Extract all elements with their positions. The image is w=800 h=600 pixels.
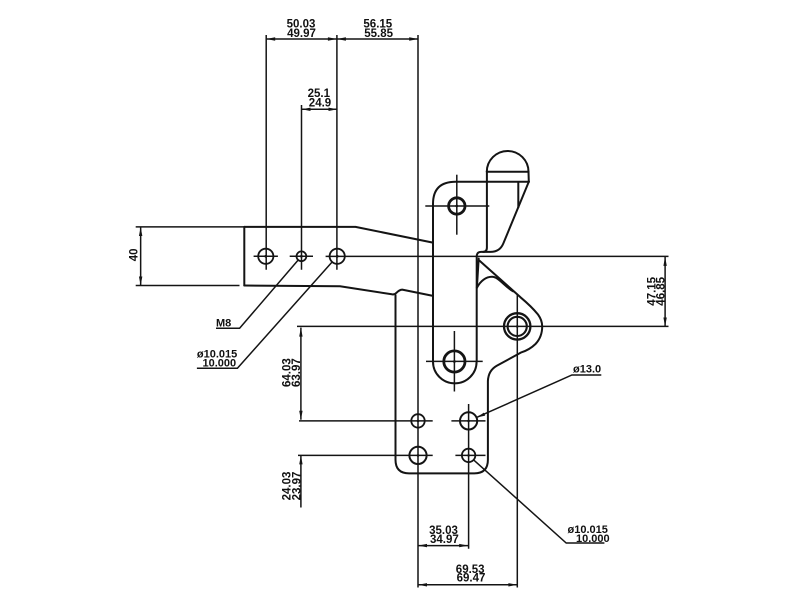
dim 47.15/46.85 <box>664 257 666 327</box>
dim 56.15/55.85 <box>337 38 418 40</box>
svg-text:55.85: 55.85 <box>364 28 393 40</box>
plate upper hole crosshair H <box>425 205 489 207</box>
plate lower hole crosshair H <box>426 360 483 362</box>
arm left ext bottom <box>136 285 240 287</box>
leader lines <box>197 260 605 543</box>
plate upper hole <box>449 198 465 214</box>
svg-text:M8: M8 <box>216 317 231 329</box>
svg-text:49.97: 49.97 <box>287 28 316 40</box>
base hole top-left <box>411 414 424 427</box>
base row2 centerline y=455.4 <box>298 454 433 456</box>
base hole top-right <box>460 412 477 429</box>
leader arrowhead dia13 <box>476 413 485 418</box>
arm hole B (M8) <box>297 251 307 261</box>
svg-text:24.9: 24.9 <box>309 98 331 110</box>
rivet inner <box>508 317 527 336</box>
clamp arm boss arc <box>477 277 513 292</box>
ext/centerline col x=468.6 <box>468 404 470 549</box>
dimension texts <box>129 19 668 585</box>
ext/centerline rivet col x=517.3 <box>516 294 518 588</box>
dim 35.03/34.97 <box>418 545 468 547</box>
arm hole B crosshair <box>290 255 313 257</box>
long centerline y=256.4 <box>326 255 669 257</box>
dim 64.03/63.97 <box>300 328 302 420</box>
svg-text:23.97: 23.97 <box>292 472 304 501</box>
ext line V4 x=301.5 <box>301 105 303 270</box>
leader dia 10.015 lower <box>474 460 605 543</box>
knob dome <box>487 151 529 172</box>
leader dia 10.015 upper <box>197 262 332 368</box>
dim 25.1/24.9 <box>302 108 338 110</box>
ext line V1 x=266 <box>265 35 267 270</box>
centerlines and extension lines <box>136 35 669 588</box>
arm left ext top <box>136 226 245 228</box>
knob collar line <box>487 171 529 173</box>
svg-text:46.85: 46.85 <box>655 276 667 305</box>
dim 24.03/23.97 <box>300 455 302 507</box>
ext line V2 x=337 <box>336 35 338 270</box>
clamp arm outer edge diagonal <box>479 261 542 327</box>
plate lower hole crosshair V <box>453 331 455 392</box>
vertical slot plate outline <box>433 172 529 384</box>
left arm outline <box>244 227 433 296</box>
leader dia 13.0 <box>476 375 601 418</box>
dimension lines <box>139 37 667 586</box>
svg-text:40: 40 <box>129 249 141 262</box>
holes <box>258 198 530 464</box>
plate upper hole crosshair V <box>456 175 458 235</box>
plate lower hole <box>444 351 465 372</box>
base hole bottom-right <box>462 449 475 462</box>
dim 40 <box>140 227 142 286</box>
svg-text:34.97: 34.97 <box>430 534 459 546</box>
clamp arm hook outline and base plate <box>396 295 543 473</box>
dim 50.03/49.97 <box>266 38 337 40</box>
arm hole A <box>258 249 273 264</box>
svg-text:69.47: 69.47 <box>457 573 486 585</box>
knob stem inner edge <box>517 182 519 207</box>
svg-text:63.97: 63.97 <box>291 358 303 387</box>
arm hole A crosshair <box>254 255 278 257</box>
clamp arm wedge left edge <box>477 259 479 288</box>
svg-text:10.000: 10.000 <box>576 533 610 545</box>
arm hole C <box>330 249 345 264</box>
base hole bottom-left <box>409 447 426 464</box>
dim 69.53/69.47 <box>418 584 517 586</box>
leader M8 <box>216 260 298 328</box>
svg-text:ø13.0: ø13.0 <box>573 364 601 376</box>
knob right edge <box>483 172 529 252</box>
ext line V3 x=418 <box>417 35 419 588</box>
long centerline y=326.4 (rivet axis) <box>297 325 669 327</box>
svg-text:10.000: 10.000 <box>203 358 237 370</box>
base row1 centerline y=420.9 <box>299 420 433 422</box>
rivet outer <box>504 313 530 339</box>
